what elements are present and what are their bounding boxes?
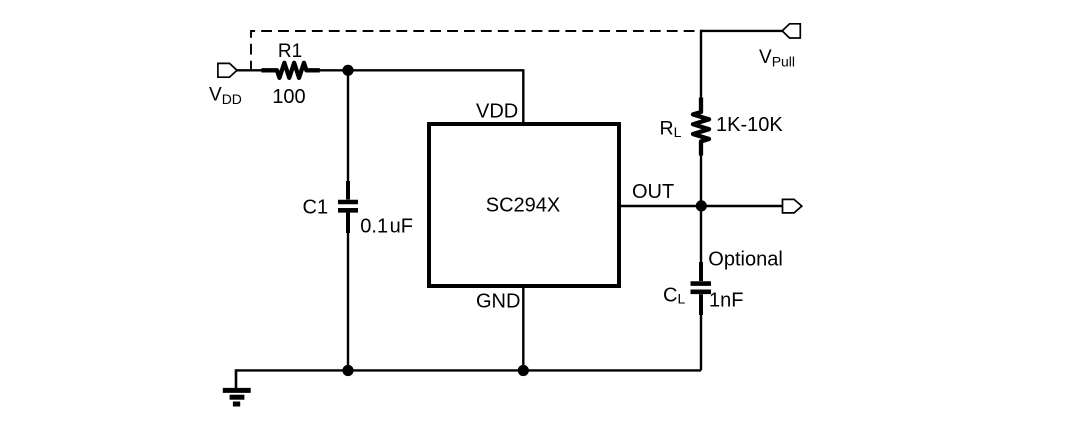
junction dot C1/rail: [342, 365, 353, 376]
wire R1 to node A and on to VDD pin: [319, 70, 523, 122]
svg-text:Optional: Optional: [708, 248, 783, 270]
wire RL to OUT node: [700, 155, 702, 206]
terminal VPull (points left): [782, 24, 800, 38]
svg-text:1K-10K: 1K-10K: [716, 114, 783, 136]
svg-text:SC294X: SC294X: [486, 195, 561, 217]
capacitor C1: [338, 181, 358, 233]
wire OUT node down to CL: [700, 206, 702, 263]
ground rail: [236, 369, 701, 371]
wire GND pin to ground rail: [522, 288, 524, 370]
node OUT junction dot: [696, 200, 707, 211]
junction dot GND/rail: [518, 365, 529, 376]
resistor R1: [262, 63, 320, 78]
wire OUT pin to output terminal: [619, 205, 783, 207]
wire dashed pull-up net from VDD input to VPull: [251, 31, 695, 70]
capacitor CL: [691, 262, 712, 315]
svg-text:VDD: VDD: [476, 101, 518, 123]
svg-text:0.1uF: 0.1uF: [360, 216, 413, 238]
ground symbol: [223, 369, 251, 404]
wire VPull line down to RL: [700, 30, 702, 98]
wire VDD terminal to R1: [237, 69, 263, 71]
svg-text:GND: GND: [476, 291, 520, 313]
wire solid from RL top node to VPull terminal: [701, 30, 783, 32]
terminal VDD input (points right): [218, 63, 237, 77]
svg-text:OUT: OUT: [632, 181, 674, 203]
wire node A down to C1: [347, 70, 349, 182]
svg-text:1nF: 1nF: [709, 289, 743, 311]
node A junction dot: [342, 65, 353, 76]
svg-text:100: 100: [272, 86, 305, 108]
svg-text:R1: R1: [278, 41, 302, 62]
wire CL to ground rail: [700, 314, 702, 370]
IC U1 SC294X box: [429, 124, 619, 286]
resistor RL: [693, 98, 709, 156]
terminal OUT (points right): [783, 199, 802, 213]
svg-text:C1: C1: [303, 197, 329, 219]
wire C1 to ground rail: [347, 232, 349, 370]
